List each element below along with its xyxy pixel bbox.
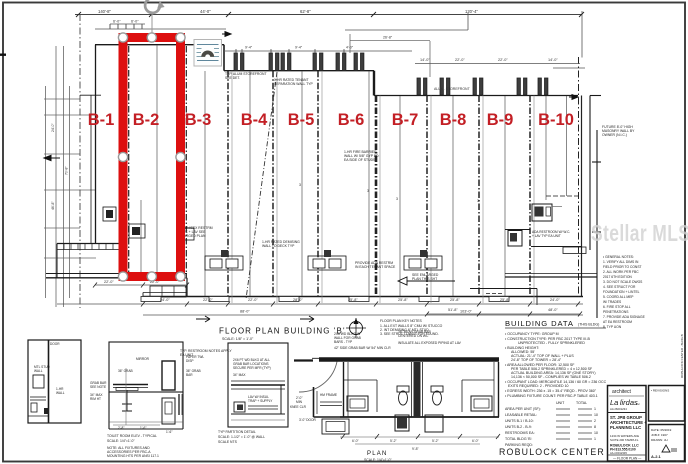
svg-text:9'-4": 9'-4" — [245, 46, 253, 50]
svg-text:2017 6TH EDITION: 2017 6TH EDITION — [603, 275, 632, 279]
svg-text:AA 26001234: AA 26001234 — [610, 407, 627, 411]
svg-text:DATE: 05/2019: DATE: 05/2019 — [651, 428, 672, 432]
svg-text:PLAN: PLAN — [367, 451, 387, 457]
svg-text:— FLOOR PLAN —: — FLOOR PLAN — — [613, 457, 642, 461]
svg-text:UNIT: UNIT — [556, 401, 565, 405]
svg-text:TOTAL BLDG 'B':: TOTAL BLDG 'B': — [505, 437, 532, 441]
floor plan notes right of title — [380, 319, 443, 336]
svg-text:+ LAV TYP EA UNIT: + LAV TYP EA UNIT — [532, 234, 561, 238]
svg-text:WALL: WALL — [56, 391, 65, 395]
svg-text:5'-2": 5'-2" — [432, 439, 440, 443]
mirror tall rect — [162, 361, 175, 390]
svg-text:B-7: B-7 — [392, 111, 419, 129]
step wall B-6/B-7 — [373, 71, 375, 96]
gridline (dash-dot) left — [79, 14, 81, 308]
left dim vline 3 — [63, 46, 65, 307]
wall B-5|B-6 — [317, 71, 319, 297]
svg-text:W/ TRADES: W/ TRADES — [603, 300, 622, 304]
svg-text:5. COORD ALL MEP: 5. COORD ALL MEP — [603, 295, 634, 299]
storefront jambs B-7..B-10 — [417, 78, 548, 95]
svg-text:SEE DET.: SEE DET. — [225, 76, 240, 80]
restroom cluster B-5/B-6 bottom — [308, 250, 346, 270]
bottom-left stair structure — [57, 243, 120, 245]
svg-text:SCALE: 1/4"=1'-0": SCALE: 1/4"=1'-0" — [364, 458, 392, 462]
dims below — [340, 436, 499, 438]
svg-text:EXITS REQUIRED: 2 - PROVIDED 1: EXITS REQUIRED: 2 - PROVIDED 10 — [508, 384, 569, 388]
svg-text:1: 1 — [594, 437, 596, 441]
right dimension extension drop — [581, 11, 583, 58]
svg-text:DRAWN: JH: DRAWN: JH — [651, 438, 668, 442]
restroom cluster B-7/B-8 bottom — [404, 250, 442, 270]
top wall B-7..B-10 section — [374, 95, 578, 97]
svg-text:7. PROVIDE ADA SIGNAGE: 7. PROVIDE ADA SIGNAGE — [603, 315, 646, 319]
flow arrows under plan — [196, 316, 314, 322]
left dim vline 4 — [69, 86, 71, 298]
svg-text:1: 1 — [594, 407, 596, 411]
svg-text:B-3: B-3 — [185, 111, 212, 129]
svg-text:6'-0": 6'-0" — [352, 439, 360, 443]
svg-text:MOUNTING HTS PER ANSI 117.1: MOUNTING HTS PER ANSI 117.1 — [107, 454, 159, 458]
architect box — [608, 386, 648, 462]
left dim cross ticks — [44, 98, 80, 100]
svg-text:FLOOR PLAN KEY NOTES: FLOOR PLAN KEY NOTES — [380, 319, 423, 323]
svg-text:103'-0": 103'-0" — [460, 310, 472, 314]
svg-text:PENETRATIONS: PENETRATIONS — [603, 310, 629, 314]
svg-text:DOOR: DOOR — [50, 342, 60, 346]
B-1..B-3 storefront dim line — [95, 24, 226, 29]
svg-text:SCALE NTS: SCALE NTS — [218, 440, 238, 444]
svg-text:(THIS BLDG): (THIS BLDG) — [578, 323, 599, 327]
svg-text:TYP PARTITION DETAIL: TYP PARTITION DETAIL — [218, 430, 256, 434]
dimension texts on overall line — [98, 9, 479, 14]
svg-text:22'-0": 22'-0" — [455, 58, 465, 62]
svg-text:BAR: BAR — [186, 373, 193, 377]
restroom cluster B-3/B-4 bottom — [205, 250, 243, 270]
heavy top wall — [319, 357, 499, 362]
project info box — [649, 386, 685, 422]
svg-text:SCALE: 1/8" = 1'-0": SCALE: 1/8" = 1'-0" — [222, 337, 254, 341]
left keynote arrow — [44, 155, 60, 160]
svg-text:3: 3 — [396, 197, 398, 201]
svg-text:SEE NOTE: SEE NOTE — [90, 385, 106, 389]
grab bar right — [178, 394, 180, 415]
seal box — [649, 425, 685, 462]
svg-text:MIN: MIN — [296, 400, 303, 404]
bottom wall main (B-4..B-10) — [143, 296, 583, 298]
svg-text:8: 8 — [594, 425, 596, 429]
keynote arrow at B-3/B-4 step — [222, 32, 231, 37]
svg-text:• EGRESS WIDTH: 236 x .15 = 35: • EGRESS WIDTH: 236 x .15 = 35.4" REQD -… — [505, 389, 597, 393]
svg-text:24'-0": 24'-0" — [51, 123, 55, 132]
left dim vline 1 — [45, 86, 47, 298]
svg-text:AA-C0012345: AA-C0012345 — [610, 451, 627, 455]
secondary dim line right section — [553, 67, 585, 69]
svg-text:24'-0": 24'-0" — [550, 298, 560, 302]
svg-text:14,136 < 50,000 SF - COMPLIES: 14,136 < 50,000 SF - COMPLIES W/ TABLE 5… — [511, 375, 591, 379]
wall B-7|B-8 — [426, 96, 428, 297]
svg-text:SCALE: 1/4"=1'-0": SCALE: 1/4"=1'-0" — [107, 439, 135, 443]
svg-text:RIM HT: RIM HT — [90, 397, 101, 401]
svg-text:TRAP + SUPPLY: TRAP + SUPPLY — [248, 399, 273, 403]
svg-text:SECURE PER MFR (TYP): SECURE PER MFR (TYP) — [233, 366, 271, 370]
svg-text:34" MAX: 34" MAX — [233, 373, 246, 377]
svg-text:SCALE: 1-1/2" = 1'-0" @ WALL: SCALE: 1-1/2" = 1'-0" @ WALL — [218, 435, 265, 439]
svg-text:2. ALL WORK PER FBC: 2. ALL WORK PER FBC — [603, 270, 639, 274]
svg-text:10: 10 — [594, 431, 598, 435]
svg-text:46'-8": 46'-8" — [51, 201, 55, 210]
svg-text:3: 3 — [299, 183, 301, 187]
svg-text:OWNER (N.I.C.): OWNER (N.I.C.) — [602, 133, 627, 137]
svg-text:9'-8": 9'-8" — [412, 447, 420, 451]
svg-text:44'-0": 44'-0" — [200, 9, 211, 14]
svg-text:EA SIDE OF STUDS: EA SIDE OF STUDS — [344, 158, 376, 162]
svg-text:• PLUMBING FIXTURE COUNT: PER: • PLUMBING FIXTURE COUNT: PER FBC-P TABL… — [505, 394, 598, 398]
svg-text:120'-4": 120'-4" — [465, 9, 479, 14]
svg-text:88'-0": 88'-0" — [240, 310, 250, 314]
right room fixtures — [433, 391, 442, 405]
svg-text:architect: architect — [612, 389, 632, 395]
svg-text:UNPROTECTED - FULLY SPRINKLERE: UNPROTECTED - FULLY SPRINKLERED — [518, 341, 585, 345]
svg-text:3'-0" DOOR: 3'-0" DOOR — [299, 418, 316, 422]
diagonal leader in B-4 — [246, 72, 277, 299]
svg-text:A-2.1: A-2.1 — [651, 454, 662, 459]
svg-text:UNITS B-2 - B-9:: UNITS B-2 - B-9: — [505, 425, 532, 429]
svg-text:LEASABLE RETAIL:: LEASABLE RETAIL: — [505, 413, 537, 417]
lavatory pedestal — [122, 390, 132, 411]
svg-text:24'-0": 24'-0" — [160, 298, 170, 302]
svg-text:2'-8": 2'-8" — [118, 426, 124, 430]
left border tick mark — [0, 54, 6, 56]
top wall B-1..B-3 section — [95, 44, 224, 46]
dimension ticks on overall line — [76, 12, 584, 17]
svg-text:25'-8": 25'-8" — [500, 298, 510, 302]
svg-text:• REVISIONS: • REVISIONS — [651, 389, 669, 393]
wall B-4|B-5 — [272, 71, 274, 297]
svg-text:1. VERIFY ALL DIMS IN: 1. VERIFY ALL DIMS IN — [603, 260, 639, 264]
svg-text:25'-8": 25'-8" — [348, 298, 358, 302]
svg-text:B-4: B-4 — [241, 111, 268, 129]
svg-text:CENTERED ON WC: CENTERED ON WC — [398, 334, 429, 338]
notes above enlarged plan — [334, 330, 462, 350]
svg-text:B-9: B-9 — [487, 111, 514, 129]
svg-text:25'-8": 25'-8" — [450, 298, 460, 302]
svg-text:La lirdas: La lirdas — [610, 398, 638, 407]
svg-text:42" SIDE GRAB BAR W/ 54" MIN C: 42" SIDE GRAB BAR W/ 54" MIN CLR — [334, 346, 391, 350]
enlarged plan caption — [364, 451, 392, 462]
svg-text:FOUNDATION + LINTEL: FOUNDATION + LINTEL — [603, 290, 640, 294]
svg-text:BARS - TYP: BARS - TYP — [334, 340, 353, 344]
selection handles — [118, 33, 185, 281]
wall B-8|B-9 — [478, 96, 480, 297]
svg-text:3: 3 — [477, 199, 479, 203]
svg-text:INSULATE ALL EXPOSED PIPING AT: INSULATE ALL EXPOSED PIPING AT LAV — [398, 341, 462, 345]
svg-text:1'-6": 1'-6" — [140, 426, 146, 430]
left dim vline 2 — [55, 46, 57, 307]
svg-text:9'-4": 9'-4" — [295, 46, 303, 50]
svg-text:BUILDING DATA: BUILDING DATA — [505, 319, 574, 328]
center plumbing wall — [414, 362, 421, 417]
svg-text:JOB #: 1907: JOB #: 1907 — [651, 433, 668, 437]
svg-text:B-2: B-2 — [133, 111, 160, 129]
svg-text:• OCCUPANCY TYPE: GROUP M: • OCCUPANCY TYPE: GROUP M — [505, 332, 559, 336]
svg-text:B-8: B-8 — [440, 111, 467, 129]
svg-text:HM FRAME: HM FRAME — [320, 393, 337, 397]
svg-text:36" GRAB: 36" GRAB — [118, 369, 133, 373]
svg-text:70'-8": 70'-8" — [65, 166, 69, 175]
svg-text:22'-0": 22'-0" — [498, 58, 508, 62]
svg-text:PLANNING LLC: PLANNING LLC — [610, 425, 641, 430]
svg-text:6'-0": 6'-0" — [113, 20, 121, 24]
storefront jambs B-4..B-6 — [234, 53, 364, 71]
svg-text:WALL TO DECK TYP: WALL TO DECK TYP — [262, 244, 295, 248]
svg-text:MIRROR: MIRROR — [136, 357, 150, 361]
wall-hung wc elevation — [162, 398, 175, 424]
svg-text:10: 10 — [594, 413, 598, 417]
svg-text:FIELD PRIOR TO CONST: FIELD PRIOR TO CONST — [603, 265, 642, 269]
svg-text:22'-0": 22'-0" — [104, 280, 114, 284]
dims — [113, 424, 160, 426]
unit area table — [505, 401, 587, 447]
svg-text:IN EACH TENANT SPACE: IN EACH TENANT SPACE — [355, 265, 396, 269]
red selection rectangle (unit B-2) — [123, 38, 181, 277]
right exterior wall gridline — [578, 57, 580, 297]
svg-text:SUITE 200 TAMPA FL: SUITE 200 TAMPA FL — [610, 438, 639, 442]
restroom unit B-2 — [103, 207, 194, 240]
svg-text:KNEE CLR: KNEE CLR — [290, 405, 307, 409]
svg-text:1'-6": 1'-6" — [166, 430, 172, 434]
svg-text:24'-8" TOP OF TOWER = 28'-4": 24'-8" TOP OF TOWER = 28'-4" — [511, 358, 562, 362]
right wing top tee — [590, 96, 601, 319]
svg-text:ROBULOCK CENTER - BLDG B: ROBULOCK CENTER - BLDG B — [680, 334, 684, 378]
svg-text:14'-0": 14'-0" — [420, 58, 430, 62]
svg-text:6'-0": 6'-0" — [472, 439, 480, 443]
svg-text:FLOOR PLAN BUILDING 'B': FLOOR PLAN BUILDING 'B' — [219, 327, 346, 336]
svg-text:TOILET ROOM ELEV - TYPICAL: TOILET ROOM ELEV - TYPICAL — [107, 434, 157, 438]
svg-text:inc: inc — [636, 402, 640, 406]
svg-text:B-10: B-10 — [538, 111, 574, 129]
svg-text:3. DO NOT SCALE DWGS: 3. DO NOT SCALE DWGS — [603, 280, 643, 284]
rear door bumps along bottom wall — [141, 297, 509, 302]
svg-text:WALL: WALL — [34, 369, 43, 373]
wall B-9|B-10 — [529, 96, 531, 297]
left room fixtures — [347, 396, 368, 411]
svg-text:14'-0": 14'-0" — [548, 58, 558, 62]
compass symbol — [346, 318, 366, 338]
svg-text:B-6: B-6 — [338, 111, 365, 129]
svg-text:8. TYP UON: 8. TYP UON — [603, 325, 622, 329]
svg-text:PLAN THIS SHT: PLAN THIS SHT — [412, 277, 437, 281]
svg-text:26'-8": 26'-8" — [383, 36, 393, 40]
bottom wall B-1..B-3 (double) — [46, 273, 187, 275]
svg-text:B-5: B-5 — [288, 111, 315, 129]
step bottom B-3/B-4 — [186, 278, 188, 297]
svg-text:Stellar MLS: Stellar MLS — [591, 222, 688, 247]
room outline — [343, 362, 345, 417]
keynote arrow at B-6/B-7 step — [569, 95, 578, 100]
top wall B-4..B-6 section — [224, 70, 374, 72]
rotate handle icon — [145, 0, 165, 34]
boxes below plan — [322, 419, 349, 434]
svg-text:RESTROOMS EA:: RESTROOMS EA: — [505, 431, 535, 435]
svg-text:28'-0": 28'-0" — [293, 298, 303, 302]
svg-text:6. FIRE STOP ALL: 6. FIRE STOP ALL — [603, 305, 631, 309]
overall top dimension line — [75, 14, 582, 16]
svg-text:UNITS B-1 / B-10:: UNITS B-1 / B-10: — [505, 419, 534, 423]
svg-text:22'-0": 22'-0" — [203, 298, 213, 302]
svg-text:140'-8": 140'-8" — [98, 9, 112, 14]
left exterior wall (double) — [90, 95, 92, 244]
svg-text:AT EA RESTROOM: AT EA RESTROOM — [603, 320, 632, 324]
svg-text:48'-0": 48'-0" — [548, 308, 558, 312]
interior partition lines unit B-2 — [141, 45, 567, 296]
connector riser top right — [467, 13, 469, 30]
wall B-6|B-7 (thick fire wall) — [375, 96, 378, 297]
step wall B-3/B-4 — [223, 45, 225, 71]
svg-text:4'-0": 4'-0" — [346, 46, 354, 50]
svg-text:22'-0": 22'-0" — [248, 298, 258, 302]
svg-text:4. SEE STRUCT FOR: 4. SEE STRUCT FOR — [603, 285, 636, 289]
wall B-1|B-2 (edge visible beside red) — [128, 46, 130, 277]
svg-text:25'-8": 25'-8" — [398, 298, 408, 302]
svg-text:DISP: DISP — [186, 359, 193, 363]
wall B-2|B-3 (edge visible beside red) — [185, 46, 187, 277]
svg-text:ALUM. STOREFRONT: ALUM. STOREFRONT — [434, 87, 471, 91]
keynote triangle B-4 bottom — [398, 277, 455, 285]
svg-text:B-1: B-1 — [88, 111, 115, 129]
svg-text:ROBULOCK CENTER: ROBULOCK CENTER — [499, 447, 605, 457]
svg-text:AREA PER UNIT (SF):: AREA PER UNIT (SF): — [505, 407, 541, 411]
wall B-3|B-4 — [227, 71, 229, 297]
svg-text:• GENERAL NOTES:: • GENERAL NOTES: — [603, 255, 634, 259]
svg-text:62'-8": 62'-8" — [300, 9, 311, 14]
svg-text:2: 2 — [594, 419, 596, 423]
svg-text:51'-8": 51'-8" — [448, 308, 458, 312]
counter — [113, 384, 148, 386]
svg-text:6'-0": 6'-0" — [131, 20, 139, 24]
svg-text:TOTAL: TOTAL — [576, 401, 587, 405]
svg-text:5'-2": 5'-2" — [390, 439, 398, 443]
svg-text:3: 3 — [367, 189, 369, 193]
svg-text:SEPARATION WALL TYP: SEPARATION WALL TYP — [274, 82, 313, 86]
